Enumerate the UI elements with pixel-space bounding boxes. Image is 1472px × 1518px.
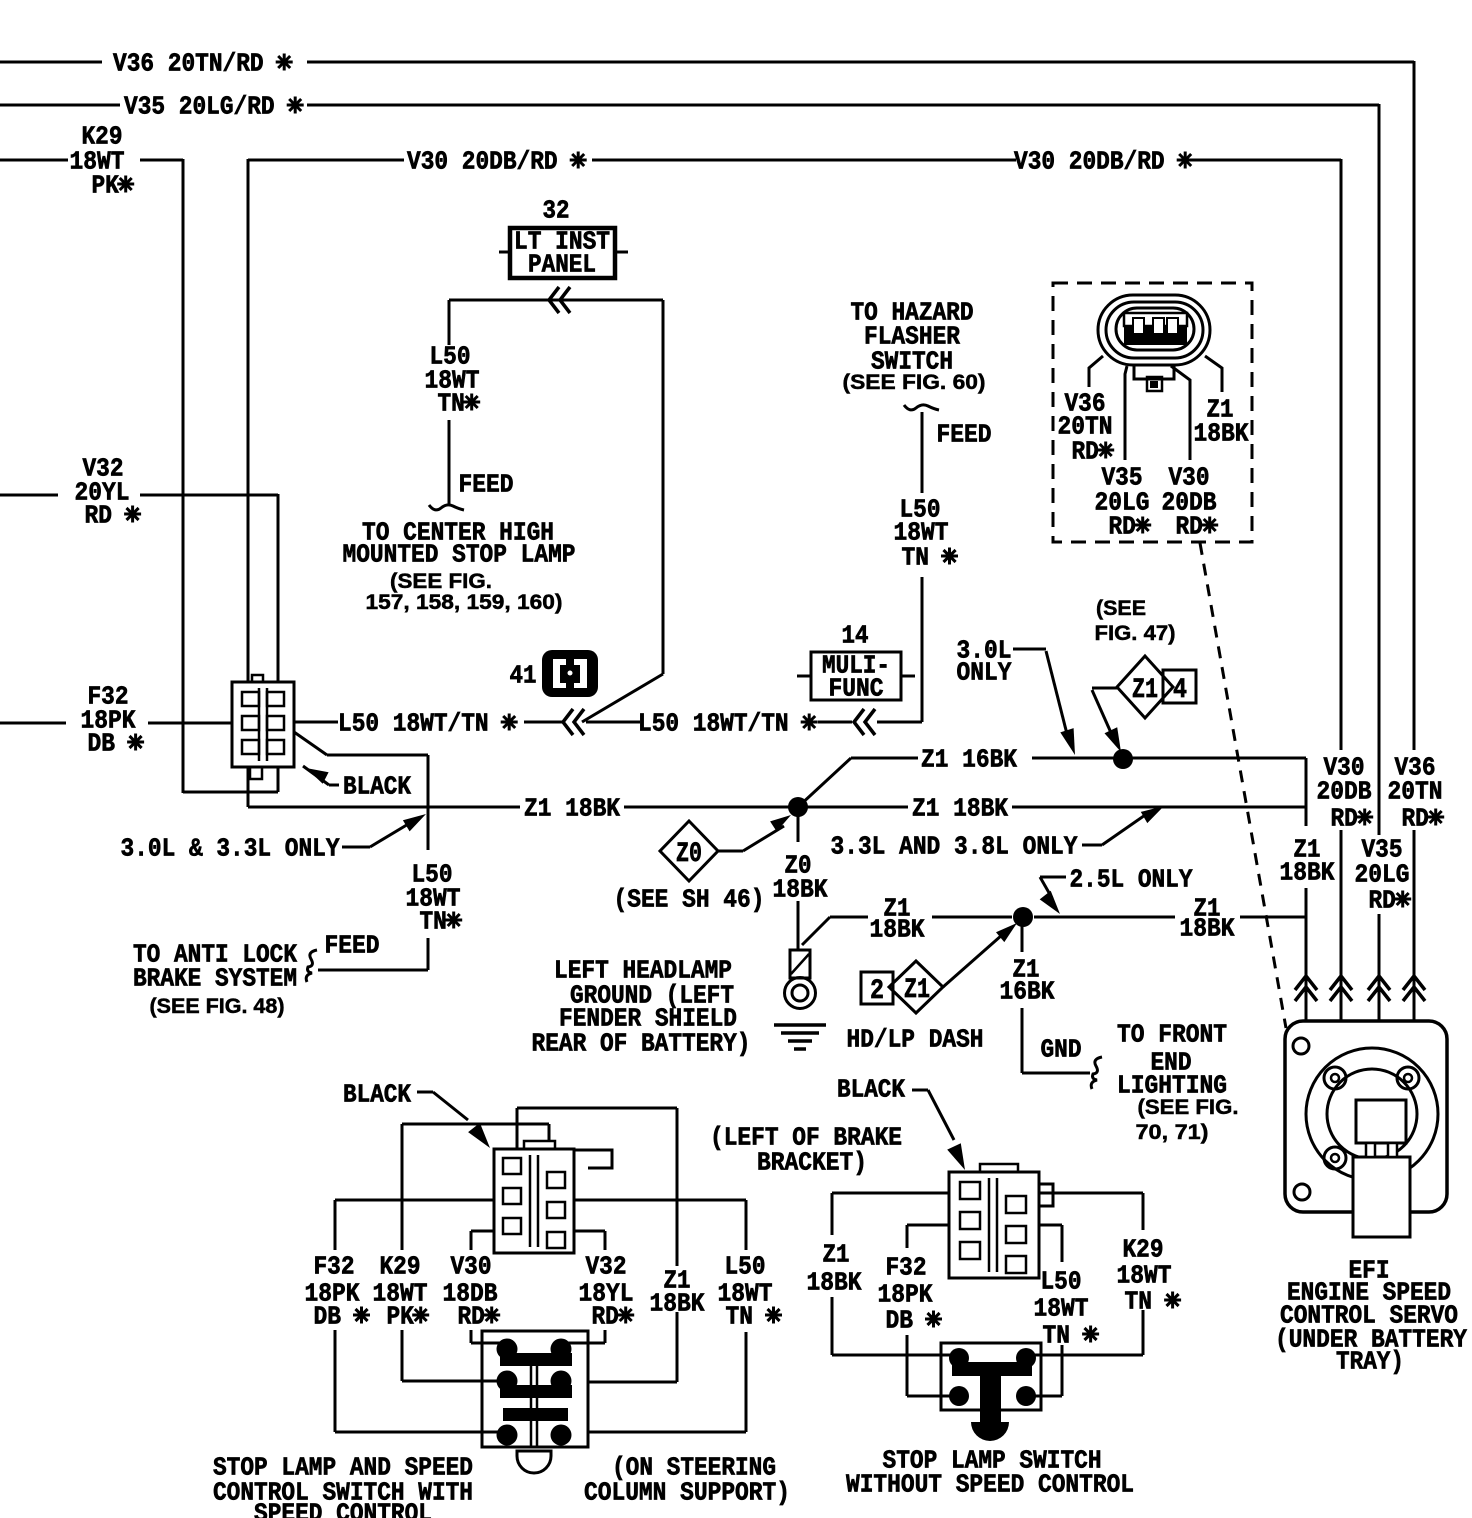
- svg-text:FIG. 47): FIG. 47): [1095, 622, 1176, 645]
- svg-text:K29: K29: [380, 1252, 421, 1282]
- svg-text:V30: V30: [451, 1252, 492, 1282]
- svg-text:TRAY): TRAY): [1336, 1347, 1404, 1377]
- svg-text:3.3L AND 3.8L ONLY: 3.3L AND 3.8L ONLY: [831, 832, 1078, 862]
- svg-text:TO FRONT: TO FRONT: [1117, 1020, 1227, 1050]
- svg-text:18WT: 18WT: [1034, 1294, 1089, 1324]
- svg-text:PANEL: PANEL: [528, 250, 596, 280]
- svg-text:BLACK: BLACK: [343, 1080, 411, 1110]
- svg-text:(SEE FIG.: (SEE FIG.: [390, 570, 492, 593]
- svg-text:V30 20DB/RD: V30 20DB/RD: [1014, 147, 1192, 177]
- svg-text:F32: F32: [314, 1252, 355, 1282]
- svg-text:(SEE SH 46): (SEE SH 46): [614, 885, 765, 915]
- svg-text:18BK: 18BK: [1280, 858, 1335, 888]
- svg-text:BLACK: BLACK: [343, 772, 411, 802]
- svg-text:18BK: 18BK: [1180, 914, 1235, 944]
- svg-text:V35 20LG/RD: V35 20LG/RD: [124, 92, 302, 122]
- svg-text:V30 20DB/RD: V30 20DB/RD: [407, 147, 585, 177]
- svg-text:L50 18WT/TN: L50 18WT/TN: [638, 709, 816, 739]
- svg-text:20TN: 20TN: [1388, 777, 1443, 807]
- svg-text:FUNC: FUNC: [829, 674, 884, 704]
- svg-text:GND: GND: [1041, 1035, 1082, 1065]
- svg-text:41: 41: [510, 661, 537, 691]
- svg-text:Z1: Z1: [904, 975, 930, 1006]
- svg-text:18BK: 18BK: [773, 875, 828, 905]
- svg-text:Z1 16BK: Z1 16BK: [921, 745, 1017, 775]
- svg-text:2: 2: [870, 976, 884, 1007]
- svg-text:4: 4: [1173, 675, 1187, 706]
- svg-text:16BK: 16BK: [1000, 977, 1055, 1007]
- svg-text:32: 32: [543, 196, 570, 226]
- svg-text:SPEED CONTROL: SPEED CONTROL: [254, 1499, 432, 1518]
- svg-text:(SEE FIG.: (SEE FIG.: [1138, 1096, 1239, 1119]
- svg-text:(SEE: (SEE: [1096, 597, 1146, 620]
- svg-text:COLUMN SUPPORT): COLUMN SUPPORT): [584, 1478, 790, 1508]
- svg-text:Z0: Z0: [676, 839, 702, 870]
- svg-text:FEED: FEED: [325, 931, 380, 961]
- svg-text:Z1: Z1: [1132, 675, 1158, 706]
- svg-text:WITHOUT SPEED CONTROL: WITHOUT SPEED CONTROL: [846, 1470, 1134, 1500]
- svg-text:ONLY: ONLY: [957, 658, 1012, 688]
- svg-text:L50: L50: [1041, 1267, 1082, 1297]
- svg-text:18BK: 18BK: [870, 915, 925, 945]
- svg-text:18BK: 18BK: [807, 1268, 862, 1298]
- svg-text:14: 14: [842, 621, 869, 651]
- svg-text:70, 71): 70, 71): [1136, 1121, 1209, 1144]
- svg-text:FEED: FEED: [459, 470, 514, 500]
- svg-text:2.5L ONLY: 2.5L ONLY: [1070, 865, 1193, 895]
- svg-text:F32: F32: [886, 1253, 927, 1283]
- svg-text:18BK: 18BK: [1194, 419, 1249, 449]
- svg-text:Z1: Z1: [823, 1240, 850, 1270]
- svg-text:157, 158, 159, 160): 157, 158, 159, 160): [366, 591, 563, 614]
- svg-text:MOUNTED STOP LAMP: MOUNTED STOP LAMP: [343, 540, 576, 570]
- svg-text:20DB: 20DB: [1317, 777, 1372, 807]
- svg-text:(SEE FIG. 60): (SEE FIG. 60): [843, 371, 986, 394]
- svg-text:L50: L50: [725, 1252, 766, 1282]
- svg-text:BLACK: BLACK: [837, 1075, 905, 1105]
- svg-text:Z1 18BK: Z1 18BK: [524, 794, 620, 824]
- svg-text:(SEE FIG. 48): (SEE FIG. 48): [150, 995, 285, 1018]
- svg-text:HD/LP DASH: HD/LP DASH: [847, 1025, 984, 1055]
- svg-text:BRACKET): BRACKET): [757, 1148, 867, 1178]
- svg-text:V32: V32: [586, 1252, 627, 1282]
- svg-text:V36 20TN/RD: V36 20TN/RD: [113, 49, 291, 79]
- svg-text:BRAKE SYSTEM: BRAKE SYSTEM: [133, 964, 297, 994]
- svg-text:Z1 18BK: Z1 18BK: [912, 794, 1008, 824]
- svg-text:REAR OF BATTERY): REAR OF BATTERY): [532, 1029, 751, 1059]
- svg-text:FEED: FEED: [937, 420, 992, 450]
- svg-text:L50 18WT/TN: L50 18WT/TN: [338, 709, 516, 739]
- svg-text:3.0L & 3.3L ONLY: 3.0L & 3.3L ONLY: [121, 834, 340, 864]
